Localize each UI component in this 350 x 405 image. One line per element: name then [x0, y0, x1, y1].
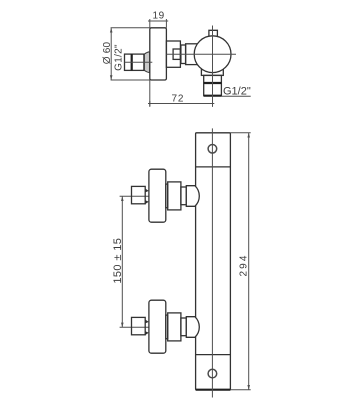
knob top tab [209, 30, 218, 37]
diameter 60 dimension line [110, 28, 112, 80]
bottom nut chamfers [145, 320, 149, 324]
body block D [186, 44, 200, 65]
wall bar body [196, 133, 231, 390]
top union nut [132, 186, 146, 203]
adapter step B [173, 49, 180, 59]
G1/2 outlet leader line [221, 95, 250, 97]
top escutcheon [149, 169, 166, 222]
svg-text:19: 19 [153, 10, 165, 21]
dimension 19 extension lines [150, 19, 167, 28]
top connection centre line [120, 195, 149, 197]
top collar [181, 187, 186, 205]
diameter 60 extension line top [111, 27, 150, 29]
bottom dome [186, 317, 199, 338]
outlet thick band [204, 82, 222, 84]
bar bottom thick edge [196, 389, 231, 391]
dimension 72 line [148, 103, 214, 105]
diameter 60 arrowheads [110, 28, 113, 33]
150 arrowheads [121, 196, 124, 201]
outlet bottom thick edge [204, 95, 222, 97]
svg-text:G1/2": G1/2" [223, 85, 251, 97]
bottom adapter flange [166, 315, 168, 339]
294 extension line top [230, 132, 250, 134]
bottom union nut [132, 317, 146, 334]
inlet union dome shading [144, 52, 149, 73]
top dome [186, 186, 199, 207]
bar top cap line [196, 166, 231, 168]
svg-text:294: 294 [238, 254, 249, 277]
top adapter flange [166, 184, 168, 208]
adapter block A [166, 41, 180, 67]
inlet union nut (side view) [125, 54, 145, 70]
knob horizontal centre line [167, 53, 237, 55]
collar C [181, 45, 186, 64]
knob vertical centre line [212, 26, 214, 107]
svg-text:150 ± 15: 150 ± 15 [112, 238, 124, 284]
bottom connection centre line [120, 326, 149, 328]
dimension 19 line [148, 20, 168, 22]
inlet union nut centre line [125, 61, 153, 63]
bar vertical centre line [211, 128, 213, 397]
bar bottom cap line [196, 354, 231, 356]
294 arrowheads [247, 133, 250, 138]
294 extension line bottom [230, 389, 250, 391]
dimension 72 left extension [149, 80, 151, 107]
top screw hole [208, 145, 217, 154]
bottom adapter block [168, 313, 181, 341]
svg-text:Ø 60: Ø 60 [102, 42, 113, 65]
wall plate (escutcheon side view) [150, 28, 167, 80]
bottom screw hole [208, 369, 217, 378]
diameter 60 extension line bottom [111, 79, 150, 81]
control knob circle [194, 36, 231, 73]
svg-text:G1/2": G1/2" [114, 44, 125, 71]
bottom escutcheon [149, 300, 166, 353]
outlet collar (under knob) [201, 70, 223, 76]
top adapter block [168, 182, 181, 210]
150 dimension line [121, 196, 123, 327]
bottom collar [181, 318, 186, 336]
outlet pipe [204, 75, 222, 95]
svg-text:72: 72 [172, 94, 185, 105]
top nut chamfers [145, 189, 149, 193]
dimension 72 ticks [149, 101, 151, 106]
294 dimension line [248, 133, 250, 390]
